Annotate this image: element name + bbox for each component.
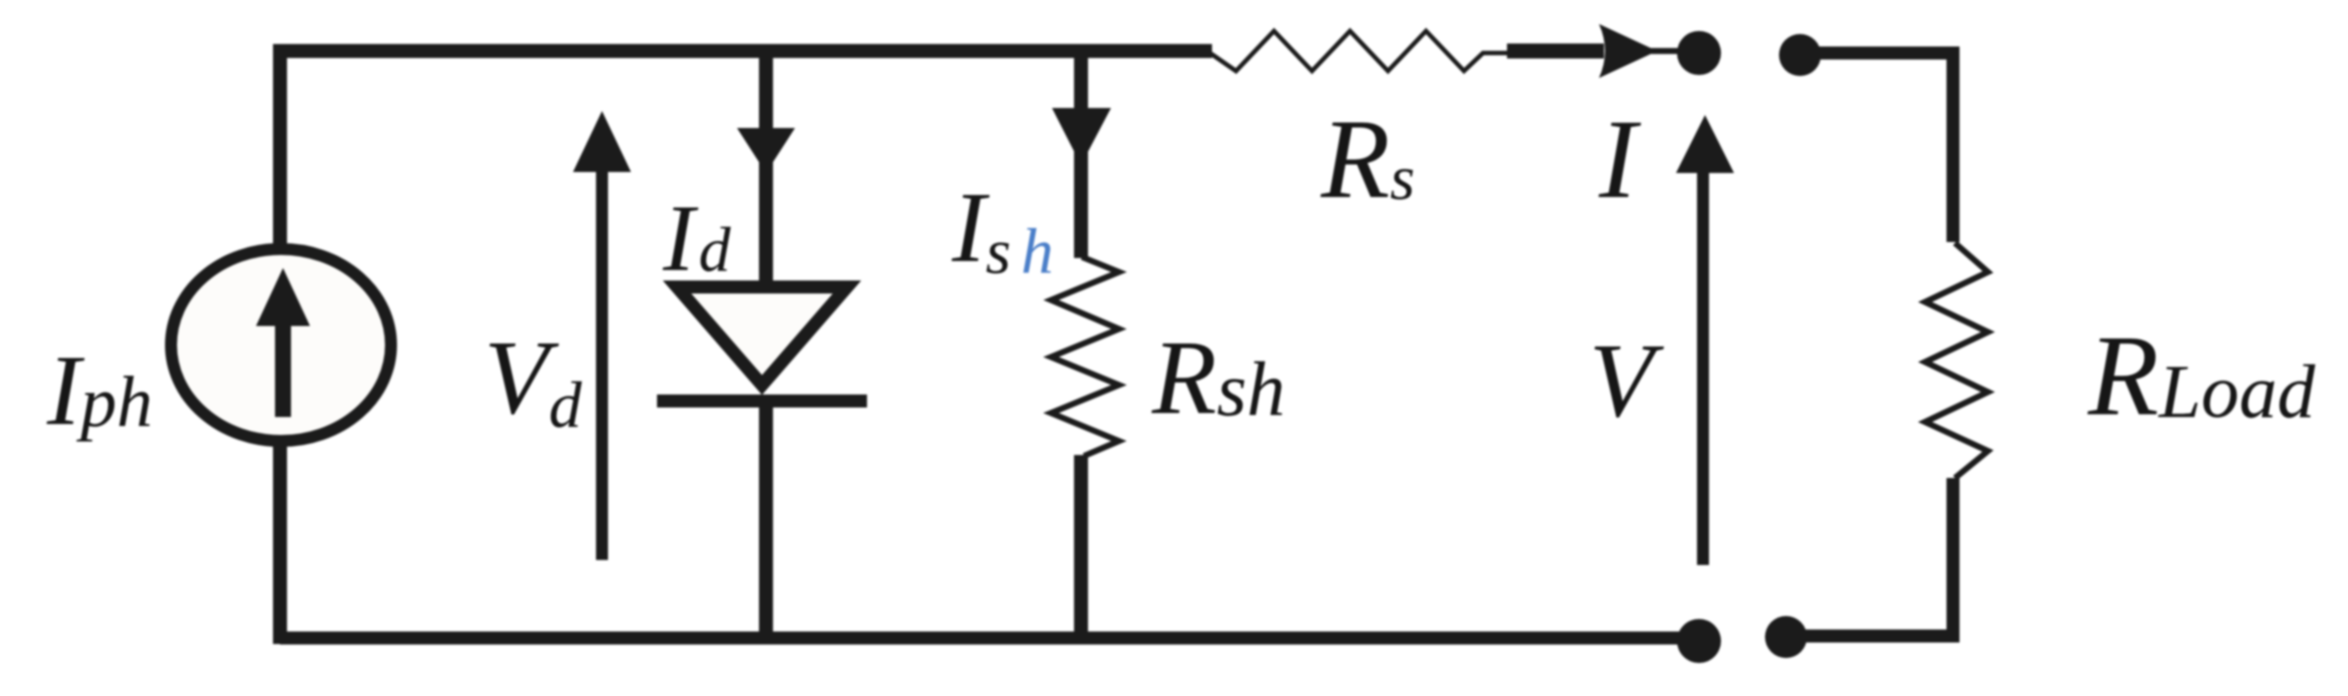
wire bottom bus [280,632,1698,645]
svg-text:I: I [1598,97,1642,222]
wire diode branch [759,45,773,292]
svg-text:Rs: Rs [1320,97,1415,222]
diode D [657,287,867,401]
arrow V [1676,115,1734,565]
node terminal top-right [1779,34,1821,76]
current source Iph [171,249,391,441]
wire Rs output with arrow I [1507,24,1680,78]
node terminal bottom-left [1677,619,1721,663]
wire load bottom [1792,478,1953,636]
svg-text:Ish: Ish [951,171,1053,288]
svg-text:Vd: Vd [484,319,583,442]
svg-text:V: V [1589,322,1664,439]
svg-text:Id: Id [662,185,732,291]
node terminal top-left [1677,31,1721,75]
arrow Id current [737,128,795,173]
svg-text:Rsh: Rsh [1151,319,1285,436]
wire Rsh to bottom [1074,455,1088,640]
wire load top [1805,53,1953,242]
svg-text:Iph: Iph [46,334,153,446]
wire diode to bottom [759,401,773,640]
resistor Rs [1210,31,1507,71]
arrow Vd [573,111,631,560]
resistor RLoad [1925,243,1988,478]
wire Rsh branch top [1074,45,1088,258]
resistor Rsh [1051,257,1119,456]
wire top bus [280,51,1212,644]
node terminal bottom-right [1765,616,1807,658]
svg-text:RLoad: RLoad [2087,312,2316,440]
arrow Ish current [1052,108,1111,165]
